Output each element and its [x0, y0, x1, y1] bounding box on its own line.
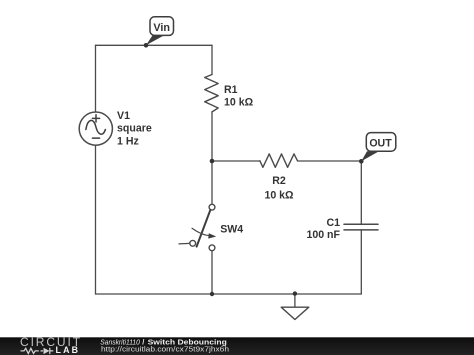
svg-text:V1: V1: [117, 110, 130, 122]
svg-text:square: square: [117, 123, 152, 135]
svg-text:LAB: LAB: [56, 345, 81, 355]
svg-text:OUT: OUT: [369, 137, 392, 149]
svg-text:SW4: SW4: [220, 224, 243, 236]
svg-text:R1: R1: [224, 84, 238, 96]
svg-text:Vin: Vin: [153, 22, 170, 34]
svg-text:http://circuitlab.com/cx75t9x7: http://circuitlab.com/cx75t9x7jhx6h: [101, 345, 229, 354]
svg-text:C1: C1: [326, 217, 340, 229]
svg-text:R2: R2: [272, 175, 286, 187]
svg-text:10 kΩ: 10 kΩ: [264, 190, 294, 202]
svg-text:1 Hz: 1 Hz: [117, 136, 139, 148]
svg-text:100 nF: 100 nF: [306, 229, 340, 241]
svg-text:10 kΩ: 10 kΩ: [224, 97, 254, 109]
